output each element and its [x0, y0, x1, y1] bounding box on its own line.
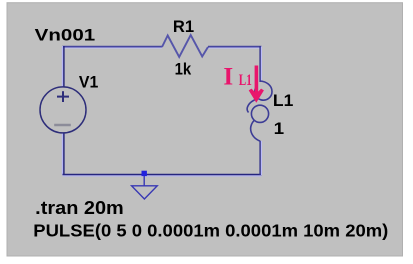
svg-text:R1: R1	[173, 17, 194, 36]
svg-text:L1: L1	[239, 72, 252, 89]
svg-text:I: I	[223, 63, 233, 90]
ground junction square	[142, 171, 147, 176]
wire left vertical lower (V1 bottom to ground rail)	[63, 133, 65, 176]
wire left vertical lower halo	[62, 133, 64, 176]
svg-text:1k: 1k	[175, 60, 192, 79]
svg-text:L1: L1	[273, 91, 293, 110]
wire bottom horizontal halo	[63, 175, 262, 177]
voltage source V1 circle	[40, 87, 86, 133]
inductor L1 loops	[255, 81, 272, 100]
V1 minus sign	[54, 124, 71, 126]
svg-text:.tran 20m: .tran 20m	[35, 198, 124, 218]
wire top horizontal halo left	[62, 47, 162, 49]
svg-text:PULSE(0 5 0 0.0001m 0.0001m 10: PULSE(0 5 0 0.0001m 0.0001m 10m 20m)	[33, 220, 388, 240]
current arrow shaft	[255, 66, 259, 96]
resistor R1 zigzag	[162, 35, 208, 57]
wire right vertical lower halo	[260, 141, 262, 175]
wire bottom horizontal rail	[63, 174, 262, 176]
wire right vertical lower (L1 bottom to rail)	[259, 141, 261, 175]
wire top horizontal left of R1	[62, 46, 162, 48]
svg-text:V1: V1	[79, 72, 98, 91]
wire top horizontal halo right	[208, 47, 262, 49]
svg-text:1: 1	[274, 119, 285, 138]
ground triangle	[132, 186, 158, 199]
wire top horizontal right of R1	[208, 46, 262, 48]
current arrow head	[249, 89, 264, 103]
svg-text:Vn001: Vn001	[35, 26, 95, 44]
wire right vertical upper (to L1 top)	[259, 46, 261, 82]
wire right vertical upper halo	[260, 47, 262, 83]
ground stem	[143, 176, 145, 186]
wire left vertical upper halo	[62, 46, 64, 88]
wire left vertical upper (to V1 top)	[63, 46, 65, 88]
V1 plus sign	[57, 96, 69, 98]
